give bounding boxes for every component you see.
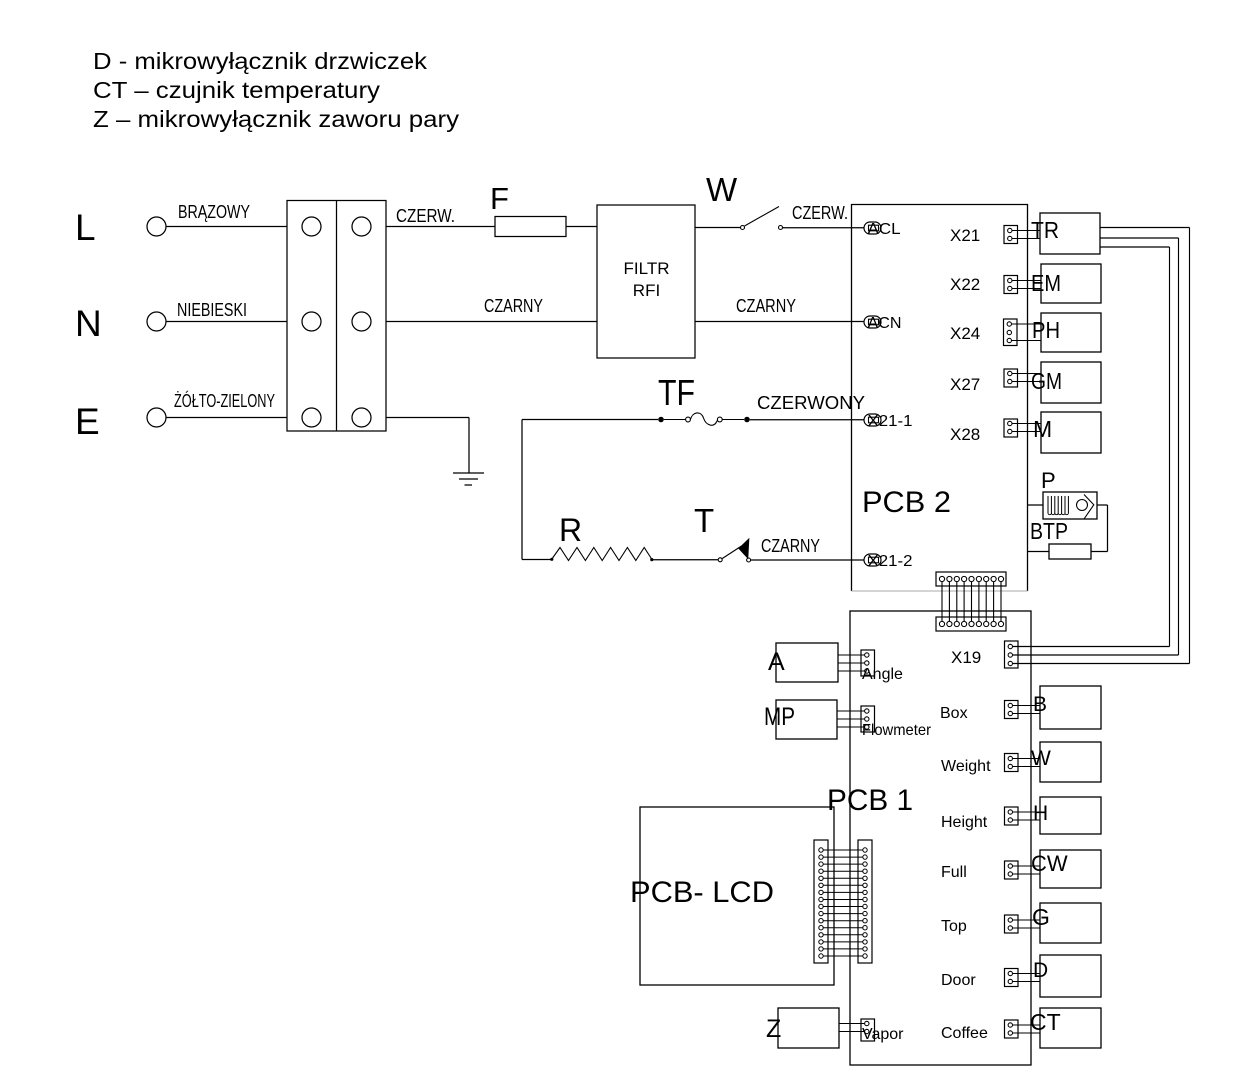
svg-text:X21: X21 [950, 226, 980, 245]
thermal fuse TF [658, 372, 744, 425]
sensor A [768, 643, 838, 682]
wire [1013, 705, 1041, 707]
wire [1012, 373, 1041, 375]
sensor MP [764, 700, 837, 739]
wire [1012, 323, 1042, 325]
svg-text:ŻÓŁTO-ZIELONY: ŻÓŁTO-ZIELONY [174, 390, 275, 411]
pin X21-2 [864, 553, 913, 570]
connector X22 [950, 275, 1018, 294]
svg-text:Height: Height [941, 814, 988, 831]
wire [837, 726, 864, 728]
PCB-LCD board [630, 807, 834, 985]
load B [1033, 686, 1101, 729]
wire [1012, 431, 1041, 433]
svg-text:X22: X22 [950, 275, 980, 294]
pump P [1041, 468, 1097, 519]
svg-text:Box: Box [940, 705, 968, 722]
svg-text:PH: PH [1032, 317, 1060, 343]
connector Weight [941, 754, 1018, 776]
svg-text:TR: TR [1031, 217, 1059, 243]
wire [1012, 238, 1040, 240]
wire (TR to X19 outer) [1013, 228, 1190, 664]
svg-text:GM: GM [1031, 368, 1062, 394]
wire (BTP to PCB2) [1028, 551, 1050, 553]
svg-text:Door: Door [941, 972, 976, 989]
load H [1033, 797, 1101, 834]
junction [658, 417, 664, 423]
svg-text:Angle: Angle [862, 666, 903, 683]
wire [1012, 423, 1041, 425]
svg-text:W: W [706, 171, 738, 208]
load D [1033, 955, 1101, 997]
wire (TR to X19 middle) [1013, 238, 1179, 655]
wire NIEBIESKI (N to terminal block) [166, 300, 287, 322]
resistor R [550, 512, 653, 561]
connector Height [941, 807, 1018, 831]
svg-text:W: W [1031, 747, 1051, 770]
svg-text:FILTR: FILTR [624, 259, 670, 278]
switch T [694, 502, 751, 562]
svg-text:D: D [1033, 959, 1048, 982]
wire (loop left side) [522, 420, 658, 560]
wire [1013, 811, 1041, 813]
board-to-board wires [942, 582, 1001, 622]
svg-text:ACL: ACL [868, 221, 901, 238]
fuse F [490, 181, 566, 237]
wire CZERW. (switch W to pin ACL) [783, 203, 865, 228]
svg-text:CZERW.: CZERW. [396, 206, 455, 226]
svg-text:X21-1: X21-1 [868, 413, 913, 430]
wire CZARNY (T to pin X21-2) [751, 536, 864, 560]
svg-text:P: P [1041, 468, 1056, 493]
load G [1032, 903, 1101, 943]
load CT [1030, 1008, 1101, 1048]
svg-text:G: G [1032, 904, 1050, 930]
svg-text:PCB 1: PCB 1 [827, 784, 913, 817]
wire [839, 1023, 864, 1025]
wire (TR to X19 inner) [1013, 247, 1170, 647]
wire [837, 710, 864, 712]
board-to-board connector (PCB1 side) [936, 617, 1006, 631]
LCD connector (PCB1 side) [858, 840, 872, 963]
wire [1012, 340, 1042, 342]
svg-text:Vapor: Vapor [862, 1026, 904, 1043]
load M [1033, 412, 1101, 453]
svg-text:F: F [490, 181, 509, 216]
connector X27 [950, 369, 1018, 394]
svg-text:CZERW.: CZERW. [792, 203, 848, 223]
wire (P to BTP loop) [1091, 505, 1108, 552]
load TR [1031, 213, 1100, 254]
svg-text:BRĄZOWY: BRĄZOWY [178, 202, 250, 222]
connector X24 [950, 319, 1017, 346]
wire [838, 662, 864, 664]
wire [838, 654, 864, 656]
svg-text:TF: TF [658, 372, 695, 413]
svg-text:B: B [1033, 693, 1047, 716]
wire [1013, 713, 1041, 715]
PCB 1 [827, 611, 1031, 1065]
wire [839, 1031, 864, 1033]
terminal L [75, 207, 166, 248]
wire (loop bottom to resistor R) [522, 559, 551, 561]
svg-text:CW: CW [1031, 851, 1068, 876]
wire CZERW. (block to fuse F) [386, 206, 495, 227]
svg-text:Coffee: Coffee [941, 1025, 988, 1042]
svg-text:X28: X28 [950, 425, 980, 444]
connector X19 [951, 641, 1018, 668]
wire [1013, 873, 1041, 875]
svg-text:X19: X19 [951, 648, 981, 667]
svg-text:PCB- LCD: PCB- LCD [630, 876, 774, 909]
wire [838, 670, 864, 672]
svg-text:EM: EM [1031, 270, 1061, 296]
svg-text:Flowmeter: Flowmeter [862, 722, 932, 739]
load CW [1031, 850, 1101, 888]
terminal block [287, 201, 386, 432]
svg-text:Full: Full [941, 864, 967, 881]
load W [1031, 742, 1101, 782]
svg-text:R: R [559, 512, 582, 548]
wire [1013, 865, 1041, 867]
connector X28 [950, 419, 1018, 444]
svg-text:N: N [75, 303, 102, 344]
connector Coffee [941, 1020, 1018, 1042]
svg-text:Weight: Weight [941, 758, 991, 775]
svg-text:ACN: ACN [868, 315, 902, 332]
wire (block to ground) [386, 418, 469, 474]
wire [1013, 758, 1041, 760]
wire [1013, 819, 1041, 821]
load PH [1032, 313, 1101, 352]
wire (RFI filter to switch W) [695, 227, 741, 229]
load GM [1031, 362, 1101, 403]
svg-text:X21-2: X21-2 [868, 553, 913, 570]
wire ZOLTO-ZIELONY (E to terminal block) [166, 390, 287, 418]
wire [1013, 973, 1041, 975]
wire CZERWONY (TF to pin X21-1) [750, 393, 865, 420]
connector Angle [861, 650, 903, 683]
wire BRAZOWY (L to terminal block) [166, 202, 287, 227]
svg-text:CZARNY: CZARNY [484, 296, 543, 316]
terminal E [75, 401, 166, 442]
PCB 2 [852, 205, 1028, 592]
terminal N [75, 303, 166, 344]
wire [1013, 1024, 1041, 1026]
load EM [1031, 264, 1101, 303]
svg-text:Top: Top [941, 918, 967, 935]
svg-text:MP: MP [764, 703, 795, 731]
wire (PCB2 to pump P) [1028, 504, 1044, 506]
wire [1012, 381, 1041, 383]
wire (R to switch T) [652, 559, 718, 561]
connector X21 [950, 226, 1018, 246]
switch W [706, 171, 783, 230]
svg-text:PCB 2: PCB 2 [862, 486, 951, 519]
svg-text:T: T [694, 502, 714, 539]
ground [453, 473, 484, 485]
svg-text:RFI: RFI [633, 281, 660, 300]
svg-text:CZARNY: CZARNY [736, 296, 796, 316]
wire [1013, 766, 1041, 768]
wire CZARNY (RFI filter to pin ACN) [695, 296, 864, 322]
connector Door [941, 969, 1018, 990]
wire [1013, 981, 1041, 983]
svg-text:CT: CT [1030, 1009, 1061, 1035]
pin X21-1 [864, 413, 913, 430]
LCD ribbon wires [823, 850, 863, 956]
pin ACL [864, 221, 901, 238]
svg-text:E: E [75, 401, 100, 442]
RFI filter [597, 205, 695, 358]
wire [837, 718, 864, 720]
svg-text:Z: Z [766, 1015, 781, 1043]
svg-text:CZERWONY: CZERWONY [757, 393, 865, 413]
connector Full [941, 861, 1018, 881]
connector Vapor [861, 1019, 904, 1043]
wire (fuse F to RFI filter) [566, 226, 597, 228]
connector Flowmeter [861, 706, 932, 739]
wire CZARNY (block to RFI filter) [386, 296, 597, 322]
connector Box [940, 701, 1018, 723]
svg-text:D - mikrowyłącznik drzwiczek: D - mikrowyłącznik drzwiczek [93, 48, 428, 74]
svg-text:X27: X27 [950, 375, 980, 394]
junction [744, 417, 750, 423]
LCD connector (LCD side) [814, 840, 828, 963]
svg-text:NIEBIESKI: NIEBIESKI [177, 300, 247, 320]
wire [1013, 927, 1041, 929]
svg-text:H: H [1033, 802, 1048, 825]
svg-text:BTP: BTP [1030, 518, 1068, 544]
svg-text:CZARNY: CZARNY [761, 536, 820, 556]
svg-text:M: M [1033, 416, 1052, 442]
board-to-board connector (PCB2 side) [936, 572, 1006, 586]
svg-text:L: L [75, 207, 96, 248]
wire [1012, 280, 1041, 282]
wire [1013, 919, 1041, 921]
connector Top [941, 915, 1018, 935]
svg-text:X24: X24 [950, 324, 980, 343]
thermostat BTP [1030, 518, 1091, 559]
svg-text:CT – czujnik temperatury: CT – czujnik temperatury [93, 77, 381, 103]
switch Z [766, 1008, 839, 1048]
pin ACN [864, 315, 902, 332]
svg-text:Z – mikrowyłącznik zaworu pary: Z – mikrowyłącznik zaworu pary [93, 106, 460, 132]
wire [1012, 288, 1041, 290]
wire [1013, 1032, 1041, 1034]
wire [1012, 230, 1040, 232]
